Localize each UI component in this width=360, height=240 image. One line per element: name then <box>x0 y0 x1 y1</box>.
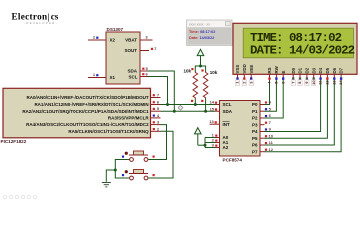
svg-text:X1: X1 <box>110 75 116 80</box>
svg-text:SDA: SDA <box>127 69 137 74</box>
popup window Time/Date <box>187 20 233 46</box>
pin 15 SDA of PCF8574 <box>210 106 220 111</box>
svg-text:P6: P6 <box>252 143 258 148</box>
svg-text:RA2/AN2/C1OUT/SRQ/T0CKI/CCP1/P: RA2/AN2/C1OUT/SRQ/T0CKI/CCP1/P1A/SDA/SDI… <box>22 109 149 114</box>
pin 3 VBAT of DS1307 <box>140 35 153 40</box>
wire P5 to LCD D5 <box>265 80 328 138</box>
junction R1 on SCL bus <box>194 103 197 106</box>
svg-text:P1: P1 <box>252 109 258 114</box>
wire to ground <box>106 170 115 182</box>
watermark icons <box>3 195 36 198</box>
wire A0 branch <box>205 137 216 139</box>
pin 11 P6 of PCF8574 <box>260 140 274 145</box>
pin 10 P5 of PCF8574 <box>260 133 274 138</box>
svg-text:VBAT: VBAT <box>125 38 137 43</box>
IC U3 PCF8574 <box>220 101 261 163</box>
svg-text:-DEVELOPER-: -DEVELOPER- <box>24 21 58 25</box>
svg-text:RA4/AN3/OSC2/CLKOUT/T1OSO/C1IN: RA4/AN3/OSC2/CLKOUT/T1OSO/C1IN1-/CLKR/T1… <box>26 122 149 127</box>
junction address bus feed <box>204 144 207 147</box>
svg-text:D7: D7 <box>339 67 344 73</box>
LCD pin labels <box>235 64 344 73</box>
wire SCL bus line <box>161 104 216 106</box>
IC U2 PIC12F1822 <box>1 88 151 144</box>
svg-text:VEE: VEE <box>249 65 254 74</box>
junction DS SDA on bus <box>173 110 176 113</box>
wire A1 branch <box>205 142 216 144</box>
svg-text:SCL: SCL <box>129 74 138 79</box>
wire R2 bottom to SDA bus <box>205 99 207 112</box>
svg-text:RA3/SS/VPP/MCLR: RA3/SS/VPP/MCLR <box>108 116 150 121</box>
pin 7 SOUT of DS1307 <box>140 46 157 51</box>
svg-text:X2: X2 <box>110 38 116 43</box>
svg-text:VSS: VSS <box>235 65 240 74</box>
junction power split <box>199 65 202 68</box>
LCD pin stubs and numbers <box>235 74 344 85</box>
pin 1 A0 of PCF8574 <box>212 133 220 138</box>
pin 6 RA1 of PIC <box>151 100 161 105</box>
wire P7 to LCD D7 <box>265 80 342 152</box>
wire P1 to LCD RW <box>265 80 277 111</box>
svg-text:RA0/AN0/C1IN+/VREF-/DACOUT/TX/: RA0/AN0/C1IN+/VREF-/DACOUT/TX/CK/SDO/P1B… <box>26 95 148 100</box>
logo Electronics Developer <box>12 11 59 25</box>
wire P0 to LCD RS <box>265 80 270 105</box>
wire DS1307 SCL to I2C bus <box>148 77 168 105</box>
wire address bus vertical <box>204 138 206 148</box>
pin 14 SCL of PCF8574 <box>210 100 220 105</box>
wire A2 branch <box>205 147 216 149</box>
pin 6 P2 of PCF8574 <box>260 113 272 118</box>
svg-text:13: 13 <box>209 119 214 124</box>
svg-text:SOUT: SOUT <box>124 48 137 53</box>
ground symbol <box>102 183 111 187</box>
svg-text:xxxx xxxx - xx: xxxx xxxx - xx <box>189 22 210 26</box>
svg-text:SCL: SCL <box>223 102 232 107</box>
pin 6 SCL of DS1307 <box>140 72 148 77</box>
pin 3 RA4 of PIC <box>151 120 161 125</box>
pin 5 P1 of PCF8574 <box>260 106 272 111</box>
pin 9 P4 of PCF8574 <box>260 127 272 132</box>
pin 5 RA2 of PIC <box>151 106 161 111</box>
svg-text:10k: 10k <box>183 68 191 73</box>
svg-text:cs: cs <box>51 12 59 22</box>
IC U1 DS1307 <box>106 27 140 84</box>
pin 2 RA5 of PIC <box>151 126 161 131</box>
wire P2 to LCD E <box>265 80 284 118</box>
resistor R2 10k <box>201 69 218 102</box>
svg-text:10: 10 <box>268 133 273 138</box>
svg-text:DS1307: DS1307 <box>107 27 124 32</box>
wire P4 to LCD D4 <box>265 80 321 132</box>
pin 13 INT of PCF8574 <box>209 119 219 124</box>
svg-text:P2: P2 <box>252 116 258 121</box>
svg-text:P0: P0 <box>252 102 258 107</box>
node marker diamond <box>178 105 183 110</box>
svg-text:12: 12 <box>268 147 273 152</box>
svg-text:10: 10 <box>311 80 316 85</box>
svg-text:INT: INT <box>223 122 231 127</box>
junction DS SCL on bus <box>166 103 169 106</box>
pin 4 RA3 of PIC <box>151 113 161 118</box>
svg-text:P4: P4 <box>252 129 258 134</box>
svg-text:SDA: SDA <box>223 109 233 114</box>
pin 2 A1 of PCF8574 <box>212 138 220 143</box>
pin 3 A2 of PCF8574 <box>212 143 220 148</box>
svg-text:RS: RS <box>267 67 272 73</box>
pin 2 X2 of DS1307 <box>88 35 106 40</box>
svg-text:DATE: 14/03/2022: DATE: 14/03/2022 <box>250 43 355 57</box>
svg-text:D3: D3 <box>311 67 316 73</box>
wire button left bus <box>115 160 129 179</box>
svg-text:Time: 08:17:02: Time: 08:17:02 <box>189 30 215 34</box>
wire PIC RA4 to button SW1 <box>148 125 166 160</box>
svg-text:Electron: Electron <box>12 12 48 22</box>
wire P6 to LCD D6 <box>265 80 335 145</box>
wire DS1307 SDA to I2C bus <box>148 71 175 111</box>
svg-text:D4: D4 <box>318 67 323 73</box>
svg-text:12: 12 <box>325 80 330 85</box>
wire R1 bottom to SCL bus <box>194 99 196 105</box>
wire SDA bus line <box>161 110 216 112</box>
svg-text:15: 15 <box>210 106 215 111</box>
svg-text:E: E <box>281 71 286 74</box>
svg-text:A2: A2 <box>223 145 229 150</box>
svg-text:14: 14 <box>338 80 343 85</box>
svg-text:P3: P3 <box>252 122 258 127</box>
svg-text:RA5/CLKIN/OSC1/T1OSI/T1CKI/SRN: RA5/CLKIN/OSC1/T1OSI/T1CKI/SRNQ <box>68 129 149 134</box>
power +V arrow at PCF address pins <box>195 128 202 146</box>
junction button bus to ground <box>114 169 117 172</box>
svg-text:PIC12F1822: PIC12F1822 <box>1 139 27 144</box>
svg-text:PCF8574: PCF8574 <box>223 157 243 162</box>
button SW2 <box>122 170 155 180</box>
svg-text:D1: D1 <box>298 67 303 73</box>
svg-text:VDD: VDD <box>242 64 247 73</box>
pin 7 RA0 of PIC <box>151 93 161 98</box>
button SW1 <box>122 151 155 161</box>
wire power feed to address bus <box>198 144 205 146</box>
svg-text:RW: RW <box>274 65 279 73</box>
pin 7 P3 of PCF8574 <box>260 120 272 125</box>
pin 5 SDA of DS1307 <box>140 66 148 71</box>
svg-text:10k: 10k <box>210 70 218 75</box>
wire power rail to resistor tops <box>195 66 205 72</box>
svg-text:|: | <box>48 11 50 21</box>
svg-text:D0: D0 <box>291 67 296 73</box>
svg-text:D5: D5 <box>325 67 330 73</box>
LCD module LM016L <box>233 23 357 74</box>
power +V arrow above resistors <box>197 49 204 66</box>
junction R2 on SDA bus <box>204 110 207 113</box>
svg-text:D6: D6 <box>332 67 337 73</box>
svg-text:14: 14 <box>210 100 215 105</box>
svg-text:Date: 14/03/22: Date: 14/03/22 <box>189 36 214 40</box>
svg-text:13: 13 <box>331 80 336 85</box>
svg-text:P7: P7 <box>252 149 258 154</box>
pin 4 P0 of PCF8574 <box>260 100 272 105</box>
wire PIC RA5 to button SW2 <box>148 131 173 178</box>
resistor R1 10k <box>183 68 197 102</box>
svg-text:D2: D2 <box>305 67 310 73</box>
svg-text:RA1/AN1/C12IN0-/VREF+/SRI/RX/D: RA1/AN1/C12IN0-/VREF+/SRI/RX/DT/SCL/SCK/… <box>34 102 148 107</box>
svg-text:P5: P5 <box>252 136 258 141</box>
pin 1 X1 of DS1307 <box>88 72 106 77</box>
pin 12 P7 of PCF8574 <box>260 147 274 152</box>
